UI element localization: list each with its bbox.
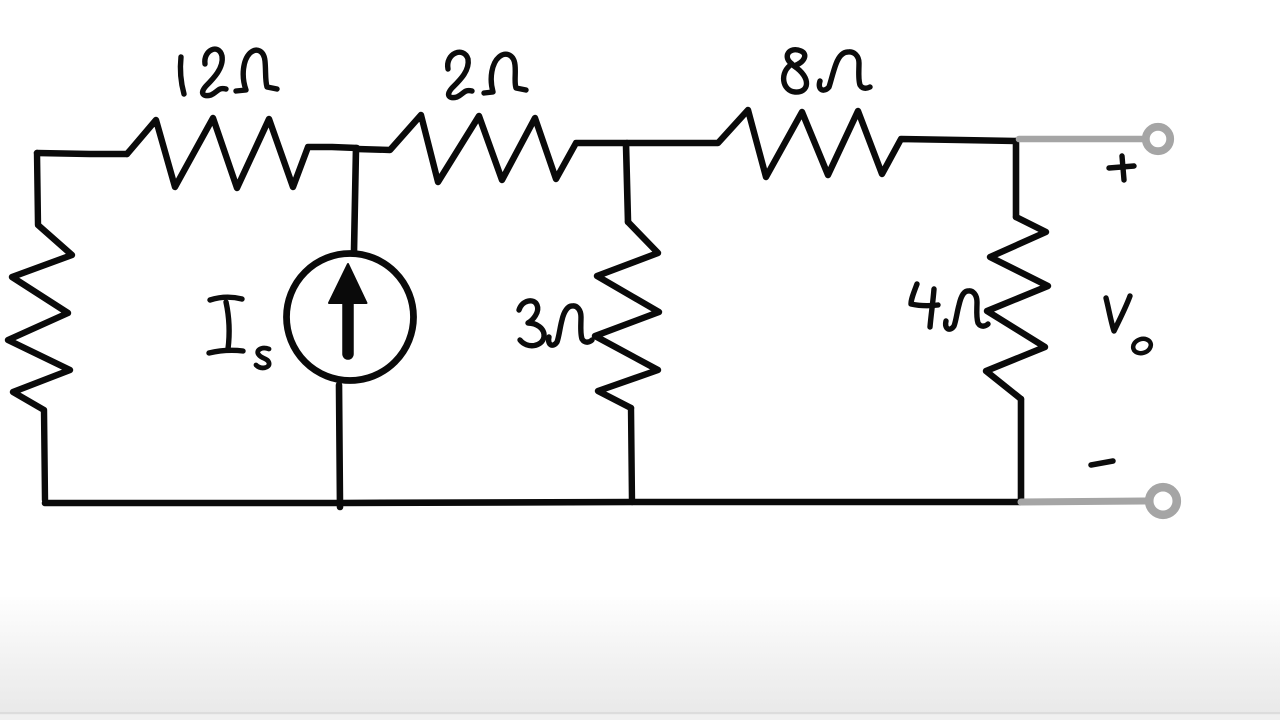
- terminal − (gray lead and ring): [1021, 487, 1177, 515]
- current source Is (circle with up arrow): [287, 254, 414, 381]
- wire right vertical (node C down to 4Ω): [1013, 141, 1020, 217]
- resistor 12Ω (horizontal zigzag): [127, 118, 357, 188]
- label 2Ω: [448, 52, 526, 97]
- label 3Ω: [519, 301, 592, 346]
- wire node B (junction of 2Ω and 8Ω) down to 3Ω: [626, 144, 628, 222]
- resistor 8Ω (horizontal zigzag): [627, 110, 1016, 177]
- resistor left vertical (unlabeled): [8, 153, 72, 500]
- wire current source to bottom rail: [339, 385, 340, 507]
- wire 4Ω to bottom rail: [1018, 399, 1025, 502]
- wire top-left horizontal: [37, 153, 127, 154]
- label −: [1091, 461, 1113, 465]
- label 8Ω: [784, 50, 870, 92]
- label Is: [209, 297, 269, 368]
- wire bottom rail: [45, 502, 1021, 503]
- label Vo: [1106, 296, 1153, 355]
- label +: [1109, 156, 1134, 180]
- label 12Ω: [180, 49, 277, 95]
- resistor 2Ω (horizontal zigzag): [357, 115, 627, 182]
- resistor 3Ω (vertical zigzag): [595, 222, 659, 408]
- resistor 4Ω (vertical zigzag): [986, 217, 1048, 399]
- wire node A (junction of 12Ω and 2Ω) down to current source: [354, 148, 356, 251]
- wire 3Ω to bottom rail: [631, 408, 632, 502]
- terminal + (gray lead and ring): [1019, 127, 1170, 151]
- label 4Ω: [911, 284, 988, 329]
